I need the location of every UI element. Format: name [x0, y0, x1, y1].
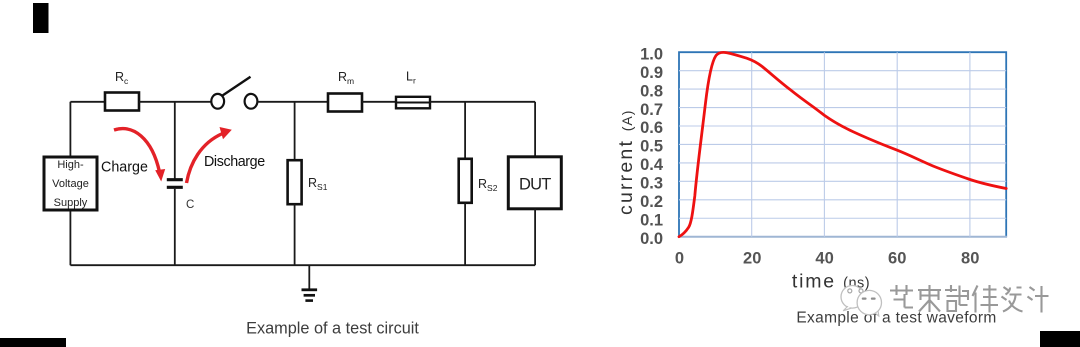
svg-text:current (A): current (A) [615, 110, 637, 215]
svg-text:Example of a test waveform: Example of a test waveform [796, 310, 996, 327]
node: capacitor branch junction on top rail [174, 102, 176, 179]
svg-text:Rm: Rm [338, 70, 354, 86]
wire: RS2 branch vertical upper [464, 102, 466, 159]
svg-text:C: C [186, 199, 194, 211]
capacitor C top plate [167, 178, 183, 181]
svg-text:0: 0 [675, 250, 684, 268]
chart horizontal gridlines [679, 71, 1006, 219]
DUT box [508, 157, 561, 209]
charge arrowhead [155, 169, 165, 182]
black corner mark bottom-left [0, 338, 66, 347]
resistor RS2 [459, 159, 472, 203]
black corner mark top-left [33, 3, 49, 33]
resistor Rm [328, 94, 362, 112]
svg-text:1.0: 1.0 [640, 45, 663, 63]
wire: top rail left segment (node between HV and Rc) [70, 101, 105, 103]
discharge arrow (red) [187, 134, 223, 184]
switch S1 left contact [211, 94, 224, 109]
inductor Lr mid line [396, 102, 430, 104]
svg-text:0.5: 0.5 [640, 138, 663, 156]
wire: RS2 to bottom rail [464, 203, 466, 265]
chart y-axis tick labels [640, 45, 664, 248]
black corner mark bottom-right [1040, 331, 1080, 347]
wire: Lr to top-right corner [430, 101, 535, 103]
ground bar 2 [304, 294, 315, 297]
svg-text:Discharge: Discharge [204, 154, 265, 170]
resistor RS1 [288, 160, 302, 204]
switch S1 lever [223, 77, 251, 96]
ground bar 1 [302, 288, 318, 291]
inductor Lr [396, 97, 430, 109]
chart bottom axis line (light) [678, 236, 1007, 238]
chart plot area border (top, left, right dark blue) [679, 52, 1006, 237]
watermark text: 芒果硬件设计 (drawn strokes) [890, 285, 1049, 313]
wire: RS1 to bottom rail [294, 204, 296, 265]
left bubble [841, 286, 864, 309]
ground stub [308, 265, 310, 289]
svg-text:0.3: 0.3 [640, 175, 663, 193]
chart vertical gridlines [752, 52, 970, 237]
svg-text:Charge: Charge [101, 160, 148, 176]
resistor Rc [105, 93, 139, 111]
capacitor C bottom plate [167, 186, 183, 189]
svg-text:0.1: 0.1 [640, 211, 663, 229]
svg-text:Supply: Supply [54, 197, 88, 209]
svg-text:60: 60 [888, 250, 906, 268]
wire: left branch vertical (HV supply to top rail and bottom rail) [69, 102, 71, 265]
svg-text:0.4: 0.4 [640, 156, 664, 174]
wire: bottom rail [70, 264, 535, 266]
chart current waveform curve (red) [679, 52, 1006, 236]
watermark logo icon: chat bubbles [841, 286, 882, 317]
wire: DUT branch vertical upper [534, 102, 536, 157]
svg-text:Lr: Lr [406, 69, 416, 85]
svg-text:Example of a test circuit: Example of a test circuit [246, 320, 419, 338]
svg-text:RS1: RS1 [308, 176, 328, 192]
svg-text:0.6: 0.6 [640, 119, 663, 137]
wire: DUT to bottom rail [534, 209, 536, 266]
high-voltage supply box U1 [44, 157, 97, 210]
wire: switch to Rm [257, 101, 328, 103]
svg-text:Rc: Rc [115, 70, 129, 86]
discharge arrowhead [220, 127, 232, 139]
wire: RS1 branch vertical upper [294, 102, 296, 160]
wire: Rc to switch [139, 101, 211, 103]
ground bar 3 [305, 299, 313, 302]
svg-text:0.2: 0.2 [640, 193, 663, 211]
switch S1 right contact [245, 94, 258, 109]
svg-text:0.7: 0.7 [640, 101, 663, 119]
right bubble [857, 290, 881, 314]
svg-text:RS2: RS2 [478, 177, 498, 193]
svg-text:40: 40 [815, 250, 833, 268]
svg-text:0.0: 0.0 [640, 230, 663, 248]
svg-text:0.8: 0.8 [640, 82, 663, 100]
chart x-axis tick labels [675, 250, 979, 268]
charge arrow (red) [114, 129, 160, 172]
wire: capacitor to bottom rail [174, 189, 176, 265]
svg-text:DUT: DUT [519, 176, 551, 194]
svg-text:0.9: 0.9 [640, 64, 663, 82]
wire: Rm to Lr [362, 101, 396, 103]
svg-text:80: 80 [961, 250, 979, 268]
svg-text:High-: High- [57, 159, 84, 171]
svg-text:Voltage: Voltage [52, 178, 89, 190]
svg-text:20: 20 [743, 250, 761, 268]
